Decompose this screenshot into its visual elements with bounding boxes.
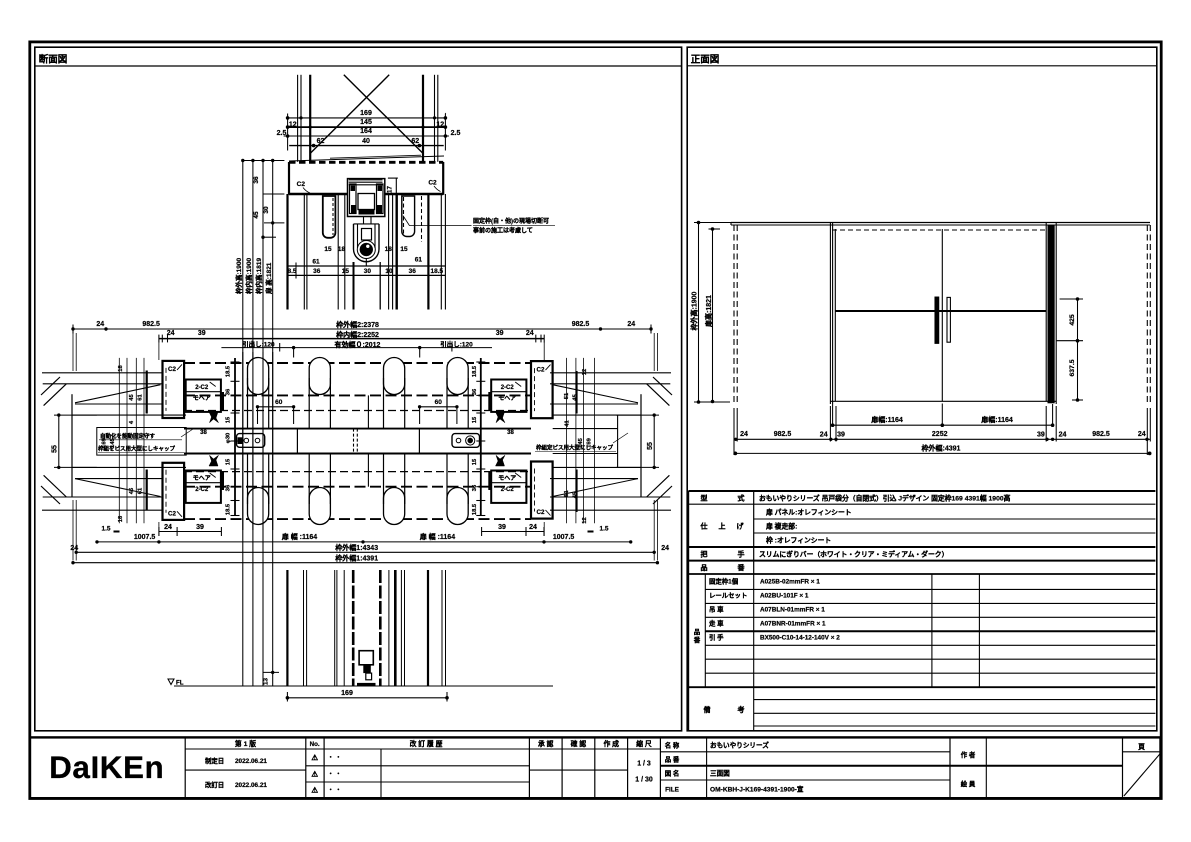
- svg-text:18: 18: [118, 515, 124, 522]
- svg-text:12: 12: [582, 517, 588, 523]
- svg-text:品: 品: [694, 627, 701, 636]
- hanger bolt: [363, 217, 365, 225]
- elevation: right wall dashed: [1146, 225, 1148, 404]
- svg-text:39: 39: [837, 431, 845, 438]
- svg-text:2-C2: 2-C2: [501, 487, 515, 493]
- title block header row: [185, 748, 660, 750]
- plan: top dim row 3 (2012): [221, 347, 492, 349]
- svg-text:2252: 2252: [932, 431, 948, 438]
- svg-text:⚠: ⚠: [311, 753, 318, 762]
- svg-text:改 訂 履 歴: 改 訂 履 歴: [410, 739, 443, 748]
- svg-text:145: 145: [578, 437, 584, 447]
- svg-text:12: 12: [582, 369, 588, 375]
- svg-text:41: 41: [565, 420, 571, 427]
- mohair brush right-top: [496, 412, 506, 423]
- svg-text:1 / 30: 1 / 30: [635, 777, 653, 784]
- svg-text:上: 上: [719, 521, 726, 530]
- svg-text:15: 15: [342, 268, 350, 275]
- door meeting stile: [941, 229, 943, 401]
- svg-text:品: 品: [701, 563, 708, 572]
- svg-text:絵 員: 絵 員: [961, 779, 976, 788]
- bottom dim rows of top section: [288, 265, 446, 267]
- svg-text:24: 24: [96, 321, 104, 328]
- svg-text:39: 39: [1037, 431, 1045, 438]
- hanger bracket assembly: [348, 179, 385, 217]
- svg-text:型: 型: [701, 494, 708, 503]
- plan: inner dim ladder left (18.5/36/15/φ30): [234, 358, 236, 516]
- svg-text:30: 30: [364, 268, 372, 275]
- svg-text:145: 145: [360, 119, 372, 126]
- elevation: pocket edge thick: [1048, 225, 1055, 403]
- svg-text:62: 62: [317, 138, 325, 145]
- svg-text:おもいやりシリーズ: おもいやりシリーズ: [710, 741, 769, 750]
- elevation: 4391 dim: [735, 452, 1149, 454]
- floor line: [174, 685, 553, 687]
- left height dim ladder lines: [242, 161, 244, 687]
- dim 13 at floor: [263, 671, 279, 673]
- svg-text:61: 61: [138, 394, 144, 401]
- svg-text:枠内高:1900: 枠内高:1900: [244, 257, 253, 294]
- svg-text:1.5: 1.5: [599, 526, 608, 533]
- svg-text:2022.06.21: 2022.06.21: [235, 782, 267, 789]
- svg-text:承 認: 承 認: [538, 739, 554, 748]
- elevation: bottom dim row: [735, 438, 1150, 440]
- svg-text:扉 複走部:: 扉 複走部:: [766, 521, 797, 530]
- svg-text:169: 169: [360, 110, 372, 117]
- plan: top dim row 1 (2378): [73, 328, 651, 330]
- svg-text:169: 169: [341, 690, 353, 697]
- svg-text:24: 24: [1059, 431, 1067, 438]
- svg-text:62: 62: [411, 138, 419, 145]
- sloped ceiling lines above header: [289, 156, 444, 161]
- svg-text:正面図: 正面図: [691, 54, 720, 65]
- svg-text:制定日: 制定日: [205, 756, 224, 765]
- roller unit: [354, 224, 380, 262]
- svg-text:枠外幅1:4343: 枠外幅1:4343: [335, 543, 378, 552]
- svg-text:18.5: 18.5: [472, 503, 478, 515]
- svg-text:FILE: FILE: [665, 787, 680, 794]
- plan: inner dim ladder right: [480, 358, 482, 516]
- svg-text:モヘア: モヘア: [193, 475, 211, 482]
- title block verticals: [184, 737, 186, 798]
- svg-text:番: 番: [737, 563, 746, 572]
- svg-text:枠組定ピス用大型にしキャップ: 枠組定ピス用大型にしキャップ: [535, 444, 614, 452]
- plan: left small dim ladder: [118, 358, 120, 523]
- svg-text:24: 24: [526, 330, 534, 337]
- spec table frame: [688, 490, 1155, 492]
- svg-text:改訂日: 改訂日: [205, 780, 224, 789]
- right-bottom C2 frame box: [531, 462, 553, 519]
- elevation: left wall dashed: [733, 225, 735, 404]
- svg-text:扉 幅 :1164: 扉 幅 :1164: [419, 532, 456, 541]
- svg-text:1007.5: 1007.5: [134, 534, 156, 541]
- svg-text:扉 幅 :1164: 扉 幅 :1164: [281, 532, 318, 541]
- svg-text:15: 15: [472, 458, 478, 465]
- svg-text:24: 24: [627, 321, 635, 328]
- svg-text:C2: C2: [428, 180, 437, 187]
- mohair brush left-top: [209, 412, 219, 423]
- svg-text:事前の施工は考慮して: 事前の施工は考慮して: [473, 226, 533, 234]
- svg-text:C2: C2: [537, 366, 545, 373]
- svg-text:図 名: 図 名: [665, 769, 680, 778]
- svg-text:確 認: 確 認: [571, 739, 587, 748]
- left panel title strip line: [35, 65, 682, 67]
- svg-text:169: 169: [586, 437, 592, 447]
- roller capsule bottom x=457.6: [447, 488, 468, 525]
- svg-text:扉幅:1164: 扉幅:1164: [980, 415, 1013, 424]
- 備考 block: [753, 687, 755, 731]
- svg-text:モヘア: モヘア: [498, 395, 516, 402]
- svg-text:61: 61: [138, 487, 144, 494]
- panel edge hidden top: [367, 395, 369, 428]
- svg-text:枠外高:1900: 枠外高:1900: [234, 257, 243, 294]
- floor guide assembly: [359, 651, 373, 665]
- top section: wall studs: [297, 75, 299, 162]
- svg-text:2.5: 2.5: [451, 130, 461, 137]
- door top dashed: [832, 229, 1047, 231]
- svg-text:枠内高:1819: 枠内高:1819: [254, 257, 263, 294]
- elevation: mid rail: [835, 310, 1046, 312]
- elevation: door frame left: [829, 223, 831, 405]
- plan: right wall end symbol: [550, 372, 671, 374]
- svg-text:2022.06.21: 2022.06.21: [235, 758, 267, 765]
- right panel border (front view): [687, 47, 1157, 731]
- svg-text:引出し:120: 引出し:120: [242, 339, 275, 348]
- svg-text:15: 15: [226, 458, 232, 465]
- svg-text:60: 60: [275, 399, 283, 406]
- svg-text:枠外幅1:4391: 枠外幅1:4391: [335, 553, 378, 562]
- svg-text:名 称: 名 称: [665, 741, 680, 750]
- svg-text:C2: C2: [537, 509, 545, 516]
- svg-text:考: 考: [738, 705, 745, 714]
- elevation: right 425/637.5 dims: [1077, 299, 1079, 400]
- svg-text:げ: げ: [737, 521, 745, 530]
- svg-text:39: 39: [498, 524, 506, 531]
- wall break line bottom-left: [75, 479, 161, 497]
- roller capsule bottom x=394.1: [384, 488, 405, 525]
- top section: X cross brace: [344, 75, 423, 154]
- svg-text:45: 45: [253, 211, 260, 219]
- svg-text:24: 24: [167, 330, 175, 337]
- svg-text:・ ・: ・ ・: [328, 772, 342, 778]
- svg-text:45: 45: [129, 487, 135, 494]
- svg-text:36: 36: [472, 388, 478, 395]
- svg-text:吊 車: 吊 車: [709, 605, 724, 614]
- svg-text:18: 18: [385, 246, 393, 253]
- door panel left edge: [834, 229, 836, 401]
- svg-text:固定枠1個: 固定枠1個: [709, 577, 739, 586]
- roller capsule bottom x=319.8: [309, 488, 330, 525]
- svg-text:637.5: 637.5: [1069, 359, 1076, 376]
- svg-text:・ ・: ・ ・: [328, 756, 342, 762]
- svg-text:18.5: 18.5: [226, 365, 232, 377]
- dim 169 below floor: [287, 697, 447, 699]
- svg-text:24: 24: [820, 431, 828, 438]
- svg-text:A07BNR-01mmFR × 1: A07BNR-01mmFR × 1: [760, 621, 826, 628]
- svg-text:有効幅０:2012: 有効幅０:2012: [335, 340, 381, 349]
- left-bottom C2 frame box: [163, 463, 185, 520]
- plan: pocket note box left: [97, 428, 186, 456]
- plan: top dim row 2 (2252): [159, 338, 544, 340]
- bottom section verticals: [286, 570, 288, 686]
- page diagonal: [1124, 754, 1160, 796]
- svg-text:982.5: 982.5: [142, 321, 160, 328]
- top dim ladder end ticks: [287, 114, 289, 151]
- mohair brush left-bottom: [209, 455, 219, 466]
- panel edge in band left: [296, 429, 298, 454]
- left panel border (section view): [35, 47, 682, 731]
- top dim ladder lines 169/145/164/40: [288, 117, 446, 119]
- right panel title strip line: [687, 65, 1157, 67]
- plan: dashed door travel lines: [184, 362, 531, 364]
- svg-text:55: 55: [52, 445, 59, 453]
- panel edge hidden bottom: [367, 454, 369, 487]
- svg-text:15: 15: [226, 416, 232, 423]
- svg-text:備: 備: [704, 705, 711, 714]
- svg-text:φ30: φ30: [226, 433, 232, 444]
- svg-text:A02BU-101F × 1: A02BU-101F × 1: [760, 593, 809, 600]
- svg-text:式: 式: [738, 494, 745, 503]
- svg-text:60: 60: [435, 399, 443, 406]
- svg-text:38: 38: [200, 430, 207, 436]
- svg-text:1.5: 1.5: [101, 526, 110, 533]
- jamb piece right (rounded): [402, 196, 415, 237]
- dim 17 in header: [395, 178, 397, 195]
- mohair brush right-bottom: [496, 455, 506, 466]
- svg-text:引 手: 引 手: [709, 633, 724, 642]
- svg-text:FL: FL: [176, 680, 184, 687]
- svg-text:24: 24: [1138, 431, 1146, 438]
- svg-text:OM-KBH-J-K169-4391-1900-宣: OM-KBH-J-K169-4391-1900-宣: [710, 785, 804, 794]
- svg-text:⚠: ⚠: [311, 786, 318, 795]
- elevation: bottom extension lines: [733, 408, 735, 455]
- svg-text:枠外幅:4391: 枠外幅:4391: [922, 443, 961, 452]
- svg-text:982.5: 982.5: [774, 431, 792, 438]
- svg-text:扉高:1821: 扉高:1821: [704, 295, 713, 328]
- svg-text:169: 169: [102, 437, 108, 447]
- FL triangle symbol: [168, 679, 174, 685]
- svg-text:スリムにぎりバー（ホワイト・クリア・ミディアム・ダーク）: スリムにぎりバー（ホワイト・クリア・ミディアム・ダーク）: [759, 550, 948, 559]
- svg-text:C2: C2: [168, 510, 176, 517]
- wall break line bottom-right: [553, 479, 639, 497]
- svg-text:164: 164: [360, 128, 372, 135]
- svg-text:番: 番: [693, 635, 701, 644]
- wall break line top-left: [75, 385, 161, 403]
- plan: dim extension verticals: [72, 333, 74, 371]
- svg-text:18.5: 18.5: [226, 503, 232, 515]
- svg-text:55: 55: [647, 442, 654, 450]
- svg-text:38: 38: [507, 430, 514, 436]
- svg-text:61: 61: [415, 257, 423, 264]
- spec rows: [688, 503, 1155, 505]
- plan: right small dim ladder: [566, 358, 568, 523]
- svg-text:61: 61: [312, 259, 320, 266]
- svg-text:36: 36: [253, 176, 260, 184]
- verticals below header box: [286, 194, 288, 310]
- svg-text:2-C2: 2-C2: [195, 385, 209, 391]
- left-top 2-C2 stile box: [186, 380, 221, 412]
- svg-text:第 1 版: 第 1 版: [235, 739, 256, 748]
- svg-text:レールセット: レールセット: [709, 592, 747, 600]
- svg-text:18: 18: [118, 365, 124, 372]
- svg-text:24: 24: [661, 545, 669, 552]
- svg-text:40: 40: [362, 138, 370, 145]
- elevation: 扉幅 dims: [833, 424, 1053, 426]
- plan: door panel band: [184, 428, 531, 430]
- svg-text:1 / 3: 1 / 3: [637, 761, 651, 768]
- jamb piece left (rounded): [323, 196, 336, 238]
- svg-text:作 成: 作 成: [603, 739, 619, 748]
- svg-text:982.5: 982.5: [1092, 431, 1110, 438]
- plan: handle plate right: [452, 434, 480, 448]
- plan: 60 dims: [258, 406, 294, 408]
- svg-text:24: 24: [164, 524, 172, 531]
- svg-text:45: 45: [573, 394, 579, 401]
- svg-text:C2: C2: [168, 366, 176, 373]
- svg-text:36: 36: [226, 484, 232, 491]
- svg-text:45: 45: [573, 491, 579, 498]
- svg-text:手: 手: [738, 550, 745, 559]
- svg-text:2-C2: 2-C2: [501, 385, 515, 391]
- roller capsule bottom x=258.1: [248, 488, 269, 525]
- svg-text:把: 把: [701, 550, 708, 559]
- svg-text:モヘア: モヘア: [498, 475, 516, 482]
- svg-text:縮 尺: 縮 尺: [636, 739, 652, 748]
- svg-text:BX500-C10-14-12-140V × 2: BX500-C10-14-12-140V × 2: [760, 635, 840, 642]
- left-top C2 frame box: [163, 361, 185, 418]
- svg-text:45: 45: [129, 394, 135, 401]
- svg-text:No.: No.: [310, 741, 320, 748]
- svg-text:4: 4: [129, 420, 135, 424]
- mohair mount left-bottom: [221, 471, 224, 490]
- svg-text:A025B-02mmFR × 1: A025B-02mmFR × 1: [760, 579, 820, 586]
- left-bottom 2-C2 stile box: [186, 471, 221, 503]
- svg-text:36: 36: [313, 268, 321, 275]
- svg-text:12: 12: [289, 122, 297, 129]
- roller capsule top x=258.1: [248, 358, 269, 395]
- svg-text:15: 15: [324, 246, 332, 253]
- svg-text:モヘア: モヘア: [193, 395, 211, 402]
- panel joint dashed: [353, 429, 355, 454]
- revision rows: [306, 765, 530, 767]
- svg-text:作 者: 作 者: [961, 750, 976, 759]
- svg-text:・ ・: ・ ・: [328, 788, 342, 794]
- svg-text:36: 36: [472, 484, 478, 491]
- ladder lines overlay through plan: [242, 352, 244, 530]
- leader to site note: [403, 216, 410, 226]
- svg-text:982.5: 982.5: [572, 321, 590, 328]
- svg-text:15: 15: [400, 246, 408, 253]
- svg-text:18: 18: [338, 246, 346, 253]
- svg-text:扉 パネル:オレフィンシート: 扉 パネル:オレフィンシート: [766, 507, 852, 516]
- right-top C2 frame box: [531, 361, 553, 418]
- svg-text:仕: 仕: [700, 521, 708, 530]
- svg-text:扉 高:1821: 扉 高:1821: [264, 262, 273, 294]
- wall break line top-right: [553, 385, 639, 403]
- roller capsule top x=394.1: [384, 358, 405, 395]
- svg-text:固定枠(自・他)の現場切断可: 固定枠(自・他)の現場切断可: [473, 217, 549, 225]
- svg-text:17: 17: [386, 186, 393, 193]
- plan: handle plate left: [237, 434, 265, 448]
- svg-text:51: 51: [564, 392, 570, 399]
- plan: left wall end symbol: [42, 372, 163, 374]
- svg-text:自動化を能動固定守す: 自動化を能動固定守す: [100, 432, 156, 440]
- svg-text:36: 36: [409, 268, 417, 275]
- svg-text:30: 30: [263, 206, 270, 214]
- plan: pocket channel lines: [72, 414, 186, 416]
- svg-text:断面図: 断面図: [39, 54, 68, 66]
- mohair mount right-bottom: [488, 471, 491, 490]
- svg-text:24: 24: [740, 431, 748, 438]
- svg-text:24: 24: [529, 524, 537, 531]
- svg-text:39: 39: [196, 524, 204, 531]
- name rows right: [660, 751, 950, 753]
- svg-text:39: 39: [198, 330, 206, 337]
- svg-text:13: 13: [263, 678, 270, 685]
- svg-text:A07BLN-01mmFR × 1: A07BLN-01mmFR × 1: [760, 607, 825, 614]
- svg-text:C2: C2: [297, 181, 306, 188]
- svg-text:18.5: 18.5: [472, 365, 478, 377]
- svg-text:18.5: 18.5: [430, 268, 443, 275]
- svg-text:扉幅:1164: 扉幅:1164: [870, 415, 903, 424]
- svg-text:品 番: 品 番: [665, 755, 680, 764]
- page cell: [1123, 751, 1161, 753]
- right-bottom 2-C2 stile box: [491, 471, 526, 503]
- roller capsule top x=457.6: [447, 358, 468, 395]
- plan: 55 dim left: [58, 415, 60, 467]
- svg-text:8.5: 8.5: [287, 268, 296, 275]
- svg-text:枠外高:1900: 枠外高:1900: [690, 291, 699, 330]
- svg-text:頁: 頁: [1138, 743, 1145, 751]
- elevation: header top lines: [731, 222, 1150, 224]
- svg-text:走 車: 走 車: [708, 619, 724, 628]
- svg-text:枠 :オレフィンシート: 枠 :オレフィンシート: [765, 535, 831, 544]
- mohair mount right-top: [488, 392, 491, 411]
- svg-text:36: 36: [226, 388, 232, 395]
- elevation: handles: [935, 297, 939, 344]
- svg-text:12: 12: [436, 122, 444, 129]
- right-top 2-C2 stile box: [491, 380, 526, 412]
- header box (top track housing): [289, 161, 443, 164]
- title block frame: [30, 737, 1161, 798]
- svg-text:DaIKEn: DaIKEn: [49, 749, 164, 785]
- mohair mount left-top: [221, 392, 224, 411]
- panel edge in band right: [418, 429, 420, 454]
- svg-text:2-C2: 2-C2: [195, 487, 209, 493]
- roller capsule top x=319.8: [309, 358, 330, 395]
- svg-text:51: 51: [564, 490, 570, 497]
- svg-text:15: 15: [472, 416, 478, 423]
- svg-text:10: 10: [385, 268, 393, 275]
- svg-text:⚠: ⚠: [311, 769, 318, 778]
- svg-text:三面図: 三面図: [710, 769, 730, 778]
- svg-text:145: 145: [110, 437, 116, 447]
- svg-text:1007.5: 1007.5: [553, 534, 575, 541]
- plan: 55 dim right: [653, 415, 655, 467]
- svg-text:おもいやりシリーズ 吊戸袋分（自閉式）引込 Jデザイン 固定: おもいやりシリーズ 吊戸袋分（自閉式）引込 Jデザイン 固定枠169 4391幅…: [759, 494, 1011, 503]
- svg-text:425: 425: [1069, 314, 1076, 326]
- svg-text:39: 39: [496, 330, 504, 337]
- svg-text:枠内幅2:2252: 枠内幅2:2252: [336, 330, 379, 339]
- parts sub-table: [705, 588, 1155, 590]
- svg-text:枠外幅2:2378: 枠外幅2:2378: [336, 320, 379, 329]
- elevation: left height dims: [698, 223, 700, 403]
- svg-text:引出し:120: 引出し:120: [440, 339, 473, 348]
- elevation: door bottom: [830, 400, 1056, 402]
- svg-text:2.5: 2.5: [277, 130, 287, 137]
